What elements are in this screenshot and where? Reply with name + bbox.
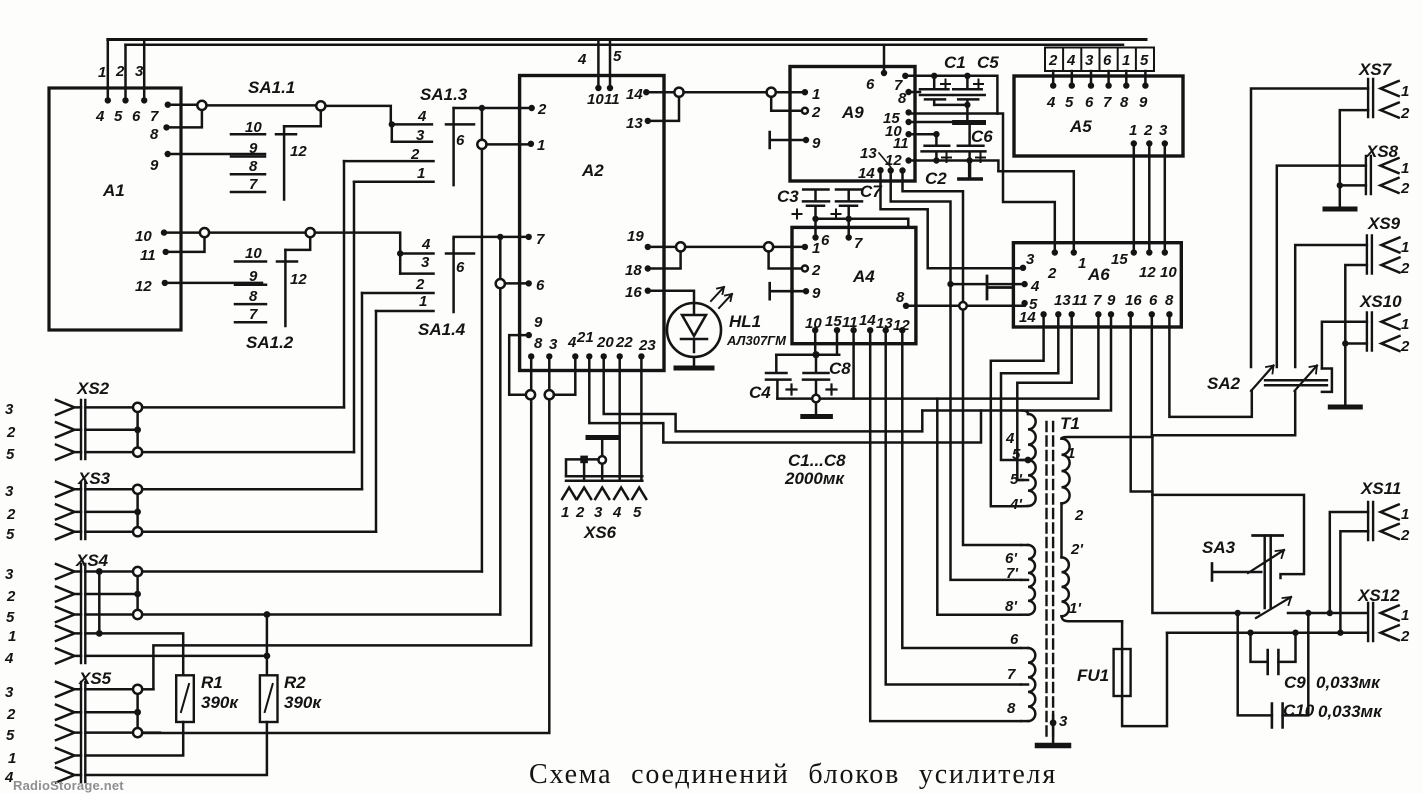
- wire A1 pin3 riser to bus: [143, 40, 146, 101]
- wire A4 pin12 to T1 winding 6: [902, 330, 1021, 648]
- wire XS2-3 riser to SA1.3 bar2: [343, 161, 346, 407]
- connector XS6 arrow pin1: [562, 488, 576, 500]
- connector XS12 contact 2: [1381, 625, 1399, 640]
- wire A6 pin7 riser from L1: [1097, 314, 1100, 398]
- svg-text:SA1.1: SA1.1: [248, 78, 295, 97]
- capacitor C9 loop right: [1278, 633, 1295, 662]
- switch contact circle XS4-3: [133, 567, 142, 576]
- svg-text:1: 1: [1078, 255, 1086, 272]
- svg-text:10: 10: [245, 245, 262, 262]
- ground T1 pin3: [1038, 743, 1069, 749]
- capacitor C5: [953, 76, 985, 123]
- node A2 pin 8: [528, 353, 534, 359]
- connector XS9 panel bars: [1367, 236, 1372, 274]
- switch SA1.2 wafer contact bar 7: [235, 321, 266, 324]
- wire SA1.3 strap bar4-bar3: [391, 124, 394, 141]
- connector XS7 contact 1: [1381, 81, 1399, 96]
- connector XS12 panel bars: [1368, 603, 1373, 641]
- node A5 pin 5: [1069, 82, 1075, 88]
- switch SA1.1 contact circle B: [316, 101, 325, 110]
- node XS5-2 dot: [134, 709, 141, 716]
- svg-text:4: 4: [612, 504, 622, 521]
- svg-text:9: 9: [249, 140, 258, 157]
- node A4 pin 10: [812, 327, 818, 333]
- svg-text:1: 1: [1129, 122, 1137, 139]
- wire A9 pin12 chain to T1 winding 6' top: [903, 171, 1022, 546]
- node A4 pin 15: [834, 327, 840, 333]
- wire XS5-5 row stub: [142, 731, 160, 734]
- node A1 pin 11: [163, 249, 169, 255]
- node C5 top junction: [964, 73, 970, 79]
- wire SA1.2 contact line: [209, 231, 306, 234]
- wire circle tail to A4 pin2: [769, 252, 805, 269]
- svg-text:4: 4: [577, 51, 587, 68]
- switch SA2 arm 2 arrowhead: [1310, 366, 1318, 374]
- node junction SA1.3 output: [479, 105, 485, 111]
- connector XS4 contact 1: [56, 626, 81, 641]
- svg-text:5': 5': [1010, 471, 1022, 488]
- svg-text:4: 4: [4, 650, 14, 667]
- node XS4-2 dot: [134, 591, 141, 598]
- svg-text:3: 3: [5, 483, 14, 500]
- node A2 pin 23: [638, 353, 644, 359]
- wire T1 winding-1 top lead: [1062, 437, 1153, 439]
- wire top bus line 2: [126, 44, 1124, 47]
- transformer T1 left winding 4-5-5p-4p: [1028, 414, 1036, 506]
- wire A5 pin3 to A6 pin10: [1164, 144, 1167, 253]
- svg-text:АЛ307ГМ: АЛ307ГМ: [726, 333, 787, 348]
- connector XS3 contact 5: [56, 524, 81, 539]
- node A4 pin 2 (open): [802, 266, 808, 272]
- node A5 pin 3: [1162, 140, 1168, 146]
- svg-text:5: 5: [1012, 446, 1021, 463]
- svg-text:10: 10: [1160, 264, 1177, 281]
- svg-text:16: 16: [1125, 292, 1142, 309]
- wire XS4-1 row to R1: [85, 633, 183, 675]
- wire A1 pin8 to SA1.1 circle tail: [167, 110, 202, 127]
- wire A5 top pin drops: [1053, 71, 1145, 86]
- svg-text:R1: R1: [201, 673, 223, 692]
- svg-text:8: 8: [1165, 292, 1174, 309]
- svg-text:8: 8: [534, 335, 543, 352]
- ground HL1: [676, 366, 712, 371]
- node A2 pin 16: [645, 288, 651, 294]
- node A4 pin 11: [850, 327, 856, 333]
- svg-text:7: 7: [1093, 292, 1102, 309]
- svg-text:11: 11: [1072, 292, 1088, 309]
- wire T1 winding 5' tap stub: [1017, 479, 1028, 482]
- wire A1 pin12 to SA1.2 wafer: [165, 282, 262, 285]
- svg-text:1: 1: [1122, 52, 1130, 69]
- wire XS3-5 row to riser: [142, 530, 376, 533]
- node A6 pin 5: [1021, 300, 1027, 306]
- connector XS7 panel bars: [1368, 79, 1373, 117]
- node A4 pin 8: [903, 303, 909, 309]
- connector XS6 arrow pin5: [632, 488, 646, 500]
- switch contact circle A9 pin1 side: [767, 88, 776, 97]
- wire XS5 strap: [85, 689, 137, 732]
- wire ground stem: [815, 402, 818, 414]
- switch SA1.4 contact bar 3: [400, 272, 433, 275]
- node A5 pin 7: [1105, 82, 1111, 88]
- connector XS2 contact 2: [56, 422, 81, 437]
- svg-text:1: 1: [812, 86, 820, 103]
- capacitor C7: [836, 190, 862, 219]
- wire A2 pin18 to circle tail: [648, 252, 681, 269]
- wire A1 pin10 to SA1.2 contact: [164, 231, 200, 234]
- svg-text:1: 1: [1401, 506, 1409, 523]
- node A2 pin 6: [526, 280, 532, 286]
- svg-text:А2: А2: [581, 161, 604, 180]
- wire A4 pin14 to T1 winding 8: [870, 330, 1021, 721]
- connector XS8 contact 1: [1380, 158, 1398, 173]
- svg-text:3: 3: [549, 336, 558, 353]
- transformer T1 right winding 2p-1p: [1062, 557, 1069, 616]
- capacitor C1: [920, 76, 952, 105]
- svg-text:12: 12: [893, 317, 910, 334]
- svg-text:1: 1: [561, 504, 569, 521]
- wire A2 pin3 vertical chain to XS5-5 row: [142, 356, 549, 733]
- wire A5 pin2 to A6 pin12: [1148, 144, 1151, 253]
- svg-text:7: 7: [1007, 666, 1016, 683]
- svg-text:7: 7: [1103, 94, 1112, 111]
- svg-text:8: 8: [1007, 700, 1016, 717]
- wire XS6 pins1-2 strap bracket: [566, 459, 598, 476]
- node A9 pin 15: [905, 109, 911, 115]
- wire R2 riser: [266, 615, 269, 676]
- switch SA1.3 circle contact to A2 pin1: [477, 140, 486, 149]
- terminal bar left of A6: [987, 276, 1013, 299]
- node A1 pin 8: [163, 124, 169, 130]
- switch SA2 arm 1 arrowhead: [1266, 366, 1274, 374]
- svg-text:1: 1: [1401, 83, 1409, 100]
- node A9 pin 8: [905, 89, 911, 95]
- ground above XS6: [588, 435, 616, 440]
- node C7 bottom junction: [846, 216, 852, 222]
- svg-text:3: 3: [1159, 122, 1168, 139]
- switch SA1.2 contact circle A: [200, 228, 209, 237]
- svg-text:А1: А1: [102, 181, 125, 200]
- connector XS9 contact 2: [1381, 258, 1399, 273]
- capacitor C10 loop right: [1283, 613, 1309, 715]
- wire XS12-1 line right part: [1288, 612, 1366, 615]
- svg-text:5: 5: [613, 48, 622, 65]
- svg-text:XS4: XS4: [75, 551, 109, 570]
- wire A6 pin1 chain to pin12 line: [998, 171, 1073, 252]
- svg-text:XS6: XS6: [583, 523, 617, 542]
- svg-text:2: 2: [1048, 52, 1058, 69]
- node A2 pin 11: [607, 85, 613, 91]
- connector XS5 contact 1: [56, 748, 81, 763]
- svg-text:6: 6: [132, 108, 141, 125]
- capacitor C10 loop left: [1238, 613, 1272, 715]
- wire XS2 strap: [85, 407, 137, 452]
- svg-text:20: 20: [596, 334, 614, 351]
- node A9 pin 11: [905, 131, 911, 137]
- svg-text:C1...C8: C1...C8: [788, 451, 846, 470]
- resistor R1 slash: [181, 684, 189, 712]
- svg-text:1: 1: [1067, 445, 1075, 462]
- connector XS8 panel bars: [1366, 156, 1371, 194]
- wire A9 pin10 to C5 bar: [909, 121, 955, 124]
- switch SA1.1 wafer contact bar 7: [231, 191, 265, 194]
- svg-text:5: 5: [1140, 52, 1149, 69]
- svg-text:3: 3: [5, 684, 14, 701]
- wire A6 pin16 chain to T1-1 vertical: [1131, 314, 1153, 491]
- wire A2 pin20 chain to L2: [604, 356, 923, 431]
- node junction XS8-2 on ground chain: [1337, 182, 1343, 188]
- wire XS8-2 stub: [1340, 184, 1366, 187]
- switch contact circle on A4p8 line: [959, 302, 967, 310]
- switch SA1.4 contact bar 4: [400, 252, 433, 255]
- ground XS7/XS8: [1325, 207, 1355, 212]
- node C2 bottom junction: [933, 157, 939, 163]
- node A5 pin 2: [1146, 140, 1152, 146]
- switch SA3 linkage rods: [1265, 536, 1271, 609]
- svg-text:XS2: XS2: [76, 379, 110, 398]
- svg-text:12: 12: [290, 271, 307, 288]
- capacitor C8: [803, 355, 829, 395]
- connector XS2 panel bars: [81, 400, 85, 459]
- wire SA1.3 junction down to XS4-3 (long vertical): [481, 108, 484, 572]
- node A6 pin 8: [1166, 311, 1172, 317]
- svg-text:5: 5: [6, 446, 15, 463]
- switch small circle XS6 pin3: [598, 456, 606, 464]
- svg-text:8': 8': [1005, 598, 1017, 615]
- svg-text:SA1.3: SA1.3: [420, 85, 468, 104]
- wire A2 pin16 to HL1: [648, 291, 694, 303]
- svg-text:6: 6: [821, 232, 830, 249]
- svg-text:6: 6: [456, 132, 465, 149]
- node XS4 strap dot row1: [96, 630, 103, 637]
- wire A2 pin10 riser (wire 4): [597, 40, 600, 89]
- svg-text:11: 11: [893, 135, 909, 152]
- svg-text:4: 4: [1066, 52, 1076, 69]
- wire XS4-3 row long to SA1.3 vertical: [142, 570, 482, 573]
- node A2 pin 19: [645, 244, 651, 250]
- node junction C9 right on XS12-2: [1292, 630, 1298, 636]
- node A1 pin 1 (dot): [105, 97, 111, 103]
- node A6 pin 4: [1021, 281, 1027, 287]
- svg-text:7: 7: [249, 176, 258, 193]
- wire A5 pin1 to A6 pin15: [1133, 144, 1136, 253]
- connector XS3 contact 2: [56, 504, 81, 519]
- svg-text:9: 9: [150, 157, 159, 174]
- wire XS7-2 to ground chain: [1340, 110, 1368, 206]
- resistor R2: [260, 675, 278, 722]
- wire XS8-1 to SA2: [1277, 166, 1366, 367]
- svg-text:C2: C2: [925, 169, 947, 188]
- connector XS3 panel bars: [81, 482, 85, 539]
- wire SA1.4 junction down to XS4-5 (long vertical): [499, 237, 502, 615]
- ground symbol below C8: [803, 414, 831, 419]
- switch SA1.2 contact circle B: [306, 228, 315, 237]
- wire A6 pin13 chain joins L2 and winding 5 tap: [1001, 314, 1058, 460]
- wire A9 pin12 line (C2 C6 bottoms): [909, 161, 999, 172]
- node A9 pin 13 bottom: [888, 167, 894, 173]
- svg-text:2: 2: [6, 424, 16, 441]
- switch SA1.4 contact bar 2: [362, 292, 434, 295]
- svg-text:390к: 390к: [284, 693, 322, 712]
- switch SA3 linkage top bar: [1253, 534, 1283, 537]
- connector XS4 contact 4: [56, 648, 81, 663]
- svg-text:18: 18: [625, 262, 642, 279]
- node A1 pin 7: [165, 102, 171, 108]
- wire SA1.4 circle to A2 pin6: [505, 282, 529, 285]
- svg-text:2: 2: [537, 101, 547, 118]
- svg-text:3: 3: [421, 254, 430, 271]
- switch SA1.4 contact bar 1: [376, 310, 434, 313]
- node A9 pin 7: [902, 73, 908, 79]
- node C1 top junction: [931, 73, 937, 79]
- LED HL1 emission arrows: [711, 287, 732, 308]
- label pointer line A9 pin13: [879, 153, 891, 167]
- wire ground stem to XS6 pin3 contact: [601, 439, 604, 456]
- connector XS3 contact 3: [56, 482, 81, 497]
- node A4 pin 13: [883, 327, 889, 333]
- resistor R1: [176, 675, 194, 722]
- svg-text:14: 14: [859, 312, 876, 329]
- svg-text:4: 4: [1030, 278, 1040, 295]
- svg-text:C1: C1: [944, 53, 966, 72]
- switch SA1.4 common with tick, label 6: [446, 239, 474, 313]
- connector XS6 arrow pin3: [595, 488, 609, 500]
- wire A2 pin13 to circle tail: [648, 97, 679, 121]
- wire A9 pin7 line to C1 C5 tops: [905, 76, 997, 114]
- connector XS5 contact 2: [56, 705, 81, 720]
- svg-text:2: 2: [1074, 507, 1084, 524]
- svg-text:2: 2: [811, 104, 821, 121]
- LED HL1 circle: [667, 303, 721, 357]
- svg-text:2': 2': [1070, 541, 1083, 558]
- node A5 pin 4: [1050, 82, 1056, 88]
- node A9 pin 14 bottom: [877, 167, 883, 173]
- svg-text:2: 2: [811, 262, 821, 279]
- node A6 pin 11: [1069, 311, 1075, 317]
- wire A4 pin10 to C4 C8 top: [814, 330, 817, 355]
- wire T1 winding-4 top lead hook: [1022, 411, 1028, 415]
- node A4 pin 9: [803, 288, 809, 294]
- node C5 stem junction: [964, 102, 970, 108]
- node A2 pin 1: [528, 141, 534, 147]
- node C3 bottom junction: [812, 216, 818, 222]
- svg-text:1: 1: [1401, 160, 1409, 177]
- svg-text:23: 23: [638, 337, 656, 354]
- svg-text:6: 6: [1103, 52, 1112, 69]
- svg-text:9: 9: [1139, 94, 1148, 111]
- svg-text:8: 8: [249, 158, 258, 175]
- svg-text:А9: А9: [841, 103, 864, 122]
- wire XS3 strap: [85, 489, 137, 531]
- node A6 pin 12: [1146, 249, 1152, 255]
- wire XS7-1 to SA2: [1251, 89, 1368, 368]
- svg-text:XS9: XS9: [1367, 214, 1401, 233]
- svg-text:C6: C6: [971, 127, 993, 146]
- svg-text:XS7: XS7: [1358, 60, 1393, 79]
- svg-text:3: 3: [1026, 251, 1035, 268]
- terminal bar A9 pin9: [770, 132, 806, 148]
- svg-text:8: 8: [898, 90, 907, 107]
- wire A2 pin14 to contact: [646, 91, 674, 94]
- node A2 pin 2: [529, 105, 535, 111]
- svg-text:3: 3: [594, 504, 603, 521]
- connector XS6 arrow pin4: [614, 488, 628, 500]
- svg-text:3: 3: [1059, 713, 1068, 730]
- capacitor C2: [909, 134, 953, 160]
- capacitor C10 plates: [1272, 704, 1283, 728]
- svg-text:19: 19: [627, 228, 644, 245]
- capacitor C9 plates: [1268, 650, 1279, 674]
- connector XS7 contact 2: [1381, 103, 1399, 118]
- connector XS10 panel bars: [1367, 313, 1372, 351]
- svg-text:1: 1: [8, 628, 16, 645]
- svg-text:8: 8: [150, 126, 159, 143]
- block A2: [520, 76, 664, 371]
- wire XS11-1 to XS12-1 line: [1330, 512, 1368, 613]
- node A5 pin 1: [1131, 140, 1137, 146]
- wire A6 pin9 riser from L2: [1110, 314, 1113, 410]
- svg-text:3: 3: [5, 566, 14, 583]
- connector XS12 contact 1: [1381, 606, 1399, 621]
- svg-text:7: 7: [854, 235, 863, 252]
- node SA1.3 bar4 junction: [389, 121, 395, 127]
- wire A2 pin4 jog to circle2: [554, 356, 575, 394]
- svg-text:4': 4': [1009, 496, 1022, 513]
- svg-text:XS8: XS8: [1365, 142, 1399, 161]
- node A9 pin 1: [802, 89, 808, 95]
- svg-text:2: 2: [1400, 105, 1410, 122]
- svg-text:SA1.2: SA1.2: [246, 333, 294, 352]
- svg-text:8: 8: [249, 288, 258, 305]
- node junction SA1.4 output: [497, 234, 503, 240]
- wire SA1.1 circleB to SA1.3: [325, 106, 390, 125]
- wire FU1 through-wire: [1122, 621, 1167, 726]
- svg-text:3: 3: [5, 401, 14, 418]
- node A4 pin 14: [867, 327, 873, 333]
- node A4 pin 6: [812, 234, 818, 240]
- svg-text:2: 2: [410, 146, 420, 163]
- switch SA1.3 contact bar 3: [392, 140, 432, 143]
- wire XS3-5 riser to SA1.4 bar1: [375, 311, 378, 532]
- node A1 pin 12: [162, 280, 168, 286]
- svg-text:HL1: HL1: [729, 312, 761, 331]
- svg-text:1: 1: [1401, 316, 1409, 333]
- connector XS5 contact 4: [56, 768, 81, 783]
- svg-text:C8: C8: [829, 359, 851, 378]
- svg-text:2000мк: 2000мк: [784, 469, 845, 488]
- svg-text:4: 4: [95, 108, 105, 125]
- svg-text:1: 1: [1401, 607, 1409, 624]
- svg-text:8: 8: [896, 289, 905, 306]
- svg-text:5: 5: [114, 108, 123, 125]
- node A6 pin 6: [1149, 311, 1155, 317]
- switch SA1.2 wafer contact bar 10: [235, 260, 266, 263]
- switch SA3 upper arm arrowhead: [1276, 550, 1285, 558]
- connector XS10 contact 2: [1381, 336, 1399, 351]
- node A5 pin 8: [1123, 82, 1129, 88]
- svg-text:14: 14: [1019, 309, 1036, 326]
- switch SA1.2 wafer contact bar 8: [235, 303, 266, 306]
- svg-text:16: 16: [625, 284, 642, 301]
- capacitor C4 plus sign: [787, 385, 797, 395]
- wire circle tail to A9 pin2: [771, 97, 805, 111]
- node A4 pin 12: [899, 327, 905, 333]
- switch contact circle A4 pin1 side: [764, 242, 773, 251]
- connector XS6 body lines: [566, 476, 642, 481]
- switch contact circle1 below A2: [526, 390, 535, 399]
- svg-text:2: 2: [6, 506, 16, 523]
- wire ground bus L1: [777, 397, 1098, 400]
